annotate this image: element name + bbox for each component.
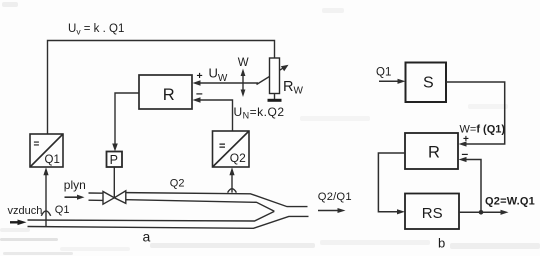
svg-text:Q2: Q2 [170,177,185,189]
converter block Q1 [30,134,63,167]
block RS [405,194,459,230]
svg-text:Q1: Q1 [55,204,70,216]
junction dot [479,210,484,215]
svg-text:=: = [219,141,225,153]
svg-text:=: = [34,139,40,150]
wire R to P [115,93,139,148]
svg-text:R: R [163,86,175,104]
gas pipe right segment upper [126,193,308,207]
svg-text:Q1: Q1 [45,154,60,166]
air pipe [28,211,309,228]
block R b [405,133,458,169]
arrow Q1 into S [379,80,400,82]
arrow vzduch [10,221,20,223]
svg-text:RW: RW [283,79,303,97]
svg-text:–: – [196,86,203,100]
potentiometer bottom stub [274,94,276,100]
tap hook on gas pipe [228,189,237,193]
potentiometer RW body [270,58,280,94]
svg-text:Q2/Q1: Q2/Q1 [318,191,352,203]
svg-text:Q2: Q2 [230,151,246,165]
svg-text:UN=k.Q2: UN=k.Q2 [234,105,285,121]
svg-text:Q2=W.Q1: Q2=W.Q1 [485,196,535,208]
svg-text:S: S [423,75,434,92]
svg-text:plyn: plyn [64,178,86,192]
arrowhead into Q1 bottom (up) [43,167,48,175]
svg-text:P: P [110,153,118,167]
svg-text:b: b [438,236,445,251]
block S [406,63,447,103]
svg-text:W: W [238,57,249,69]
svg-text:R: R [428,144,440,162]
wire feedback to R minus [462,160,481,213]
svg-text:UW: UW [209,66,228,85]
arrow plyn [65,196,79,198]
arrowhead into R minus input (left) [193,97,201,103]
arrowhead wiper tip [281,65,289,71]
gas pipe right segment lower [126,200,275,212]
arrowhead into R plus input (left) [193,80,201,86]
svg-text:Q1: Q1 [376,67,391,79]
wire P to valve stem [113,167,115,198]
W double arrow [242,73,244,94]
actuator block P [107,152,123,168]
potentiometer RW wiper diagonal [257,67,285,84]
wire UW wiper to R [196,82,258,84]
svg-text:+: + [197,70,203,82]
arrow Q2/Q1 [318,210,340,212]
wire Uv top rail [48,41,275,135]
gas pipe left segment [89,193,308,212]
tap hook on air pipe [41,211,50,216]
svg-text:vzduch: vzduch [8,205,43,217]
svg-text:Uv = k . Q1: Uv = k . Q1 [68,23,124,37]
wire R to RS [378,153,405,212]
wire UN Q2-to-R [196,100,233,131]
regulator block R [139,75,192,109]
valve body [103,191,126,204]
arrowhead into P (down) [112,144,118,152]
svg-text:RS: RS [422,205,443,222]
svg-text:+: + [463,134,469,145]
ground bar [268,99,282,102]
wire tap to Q2 stem [231,171,233,193]
wire RS output [459,211,503,213]
wire S to R plus [446,82,505,144]
converter block Q2 [213,131,250,167]
svg-text:a: a [143,229,151,245]
wire tap to Q1 stem [45,171,47,226]
arrowhead into Q2 bottom (up) [229,167,234,175]
